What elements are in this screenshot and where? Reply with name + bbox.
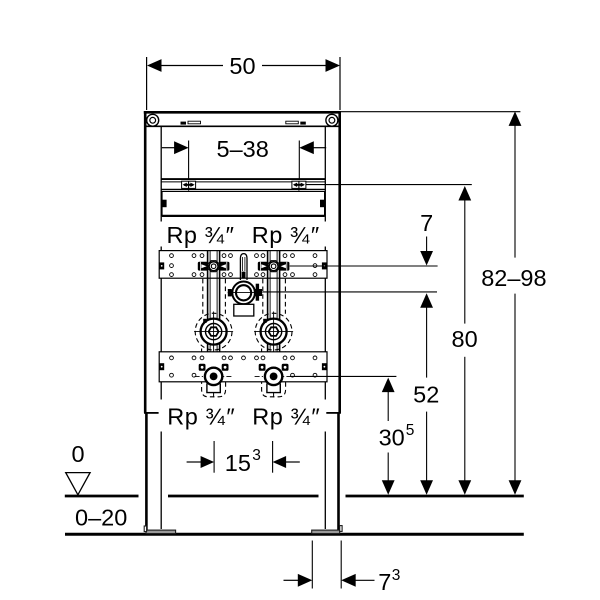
supply pipe left upper: [208, 251, 220, 321]
finished floor line: [65, 495, 524, 498]
crossbar tab right: [320, 200, 325, 208]
frame screw top-left: [147, 114, 159, 126]
zero level triangle: [66, 473, 90, 495]
dimension 15-3 extension lines: [213, 441, 215, 473]
svg-text:Rp ¾″: Rp ¾″: [252, 404, 319, 430]
dimension 7-3 arrows: [284, 579, 300, 581]
svg-text:0: 0: [71, 441, 84, 467]
dimension 15-3 leader left: [187, 461, 202, 463]
svg-text:Rp ¾″: Rp ¾″: [167, 222, 234, 248]
rail body: [161, 182, 325, 190]
svg-text:7: 7: [420, 210, 433, 236]
dimension 50 arrow left: [147, 59, 162, 72]
svg-text:Rp ¾″: Rp ¾″: [167, 404, 234, 430]
frame right rail outer: [338, 111, 341, 413]
dimension 5-38 leader right: [312, 147, 326, 149]
svg-text:0–20: 0–20: [75, 505, 127, 531]
frame left leg joint tick: [144, 412, 159, 414]
frame top bar: [144, 111, 341, 114]
dimension 80: [458, 186, 471, 201]
svg-text:3: 3: [252, 447, 261, 464]
leader line to 52 dimension: [263, 291, 437, 293]
top plate holes: [170, 254, 317, 277]
dashed concealed outline left: [195, 279, 232, 397]
upper crossbar: [162, 191, 325, 216]
dimension 50 extension line left: [146, 57, 148, 110]
frame left leg lower: [145, 413, 148, 530]
frame clip mark right: [286, 121, 299, 124]
valve body right: [254, 312, 293, 352]
svg-text:82–98: 82–98: [481, 265, 546, 291]
svg-text:7: 7: [378, 569, 391, 595]
rail slider right: [292, 181, 306, 190]
frame right rail inner line: [324, 127, 326, 529]
dimension 5-38 leader left: [162, 147, 176, 149]
dimension 5-38 arrow right: [299, 141, 314, 154]
frame clip mark left: [181, 122, 187, 125]
lower plate end tab right: [322, 363, 327, 370]
dimension 15-3 leader right: [273, 456, 287, 468]
top plate end tab right: [322, 262, 327, 269]
svg-text:3: 3: [392, 567, 401, 584]
top plate fitting right: [258, 261, 290, 272]
dashed concealed outline right: [255, 279, 292, 397]
frame right leg lower: [337, 413, 340, 530]
frame left rail outer: [144, 111, 147, 413]
central socket circle: [228, 282, 263, 305]
svg-text:Rp ¾″: Rp ¾″: [252, 222, 319, 248]
leader line to 82-98 dimension: [341, 111, 520, 113]
dimension 30-5: [382, 378, 395, 393]
dimension 5-38 arrow left: [174, 141, 189, 154]
rail slider left: [182, 181, 196, 190]
top mounting plate: [159, 251, 327, 279]
leader line to 80 dimension: [306, 184, 472, 186]
box below central socket: [234, 304, 254, 316]
svg-text:50: 50: [229, 53, 255, 79]
dimension 50 extension line right: [339, 57, 341, 110]
leader line to 30-5 dimension: [290, 375, 396, 377]
svg-text:15: 15: [225, 450, 251, 476]
central pipe: [240, 254, 247, 280]
lower plate end tab left: [159, 363, 164, 370]
dimension 82-98: [509, 111, 522, 126]
rail top line: [161, 178, 325, 180]
supply pipe right lower: [268, 343, 280, 368]
dimension 5-38 extension line left: [188, 141, 190, 181]
svg-text:5: 5: [406, 422, 415, 439]
frame right leg joint tick: [326, 412, 341, 414]
frame top inner line: [146, 125, 338, 127]
svg-text:80: 80: [452, 326, 478, 352]
left foot plate: [144, 526, 175, 534]
lower fitting right: [255, 364, 293, 398]
right foot plate: [312, 526, 342, 534]
dimension 7-3 extension lines: [311, 541, 313, 589]
top plate end tab left: [159, 262, 164, 269]
frame left rail inner line: [160, 127, 162, 529]
svg-text:5–38: 5–38: [217, 136, 269, 162]
top plate fitting left: [198, 261, 230, 272]
svg-text:30: 30: [379, 425, 405, 451]
leader line to 7 dimension: [290, 265, 438, 267]
dimension 52: [420, 293, 433, 308]
dimension 50 line: [159, 65, 223, 67]
supply pipe right upper: [268, 251, 280, 321]
dimension 5-38 extension line right: [298, 141, 300, 181]
supply pipe left lower: [208, 343, 220, 368]
lower plate holes: [170, 356, 317, 377]
lower fitting left: [195, 364, 233, 398]
dimension 50 arrow right: [326, 59, 341, 72]
valve body left: [194, 312, 233, 352]
crossbar tab left: [161, 200, 166, 208]
frame screw top-right: [326, 114, 338, 126]
svg-text:52: 52: [413, 382, 439, 408]
lower mounting plate: [159, 352, 327, 382]
raw floor line: [65, 533, 524, 536]
